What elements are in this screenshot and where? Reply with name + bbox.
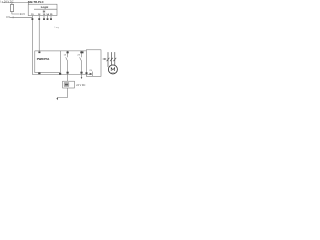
svg-text:1 mg: 1 mg xyxy=(54,27,58,29)
svg-text:0 V: 0 V xyxy=(6,16,10,19)
svg-text:PWR/PS1: PWR/PS1 xyxy=(37,57,50,61)
svg-text:24 V DC: 24 V DC xyxy=(76,84,85,87)
svg-text:24 V: 24 V xyxy=(20,13,25,16)
svg-text:Logic: Logic xyxy=(41,5,49,9)
svg-text:SIB-TR-PLC: SIB-TR-PLC xyxy=(28,0,44,4)
svg-text:L+ 24 V DC: L+ 24 V DC xyxy=(0,0,14,3)
